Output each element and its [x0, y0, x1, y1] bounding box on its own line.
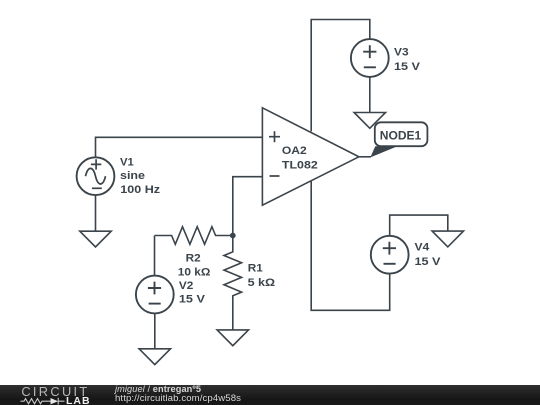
svg-text:LAB: LAB — [66, 395, 91, 405]
svg-text:V1: V1 — [120, 157, 134, 169]
resistor R2 — [155, 227, 233, 245]
svg-text:R1: R1 — [248, 263, 263, 275]
node NODE1 flag — [370, 122, 427, 157]
label V1 value — [120, 157, 161, 196]
wire V2 bottom to ground — [154, 313, 156, 348]
ground below V3 — [354, 113, 385, 129]
voltage source V2 — [136, 276, 174, 314]
wire V3 bottom to ground — [369, 77, 371, 113]
CircuitLab logo — [0, 385, 110, 405]
label R1 value — [248, 263, 276, 290]
wire op-amp V+ supply pin — [311, 20, 370, 132]
junction dot — [230, 233, 236, 239]
svg-text:sine: sine — [120, 170, 145, 182]
svg-text:15 V: 15 V — [415, 256, 442, 268]
ground below V1 — [80, 231, 111, 247]
svg-text:V4: V4 — [415, 242, 431, 254]
op-amp OA2 — [262, 108, 359, 205]
svg-text:R2: R2 — [186, 252, 201, 264]
wire inverting input from junction — [233, 177, 263, 236]
svg-text:15 V: 15 V — [394, 61, 421, 73]
voltage source V4 — [371, 236, 409, 274]
svg-text:V2: V2 — [179, 280, 193, 292]
label V4 value — [415, 242, 442, 268]
wire op-amp V- supply pin to V4 — [311, 181, 390, 310]
label OA2 name — [282, 145, 318, 171]
label R2 value — [178, 252, 211, 278]
ground below V2 — [139, 349, 170, 365]
svg-text:100 Hz: 100 Hz — [120, 184, 160, 196]
label V2 value — [179, 280, 206, 306]
voltage source V1 — [77, 157, 115, 195]
svg-text:V3: V3 — [394, 47, 409, 59]
resistor R1 — [224, 236, 242, 330]
svg-text:10 kΩ: 10 kΩ — [178, 266, 211, 278]
wire R2 left to V2 — [154, 236, 156, 276]
wire V1 bottom to ground — [95, 195, 97, 231]
svg-text:15 V: 15 V — [179, 294, 206, 306]
wire V1 top to op-amp non-inverting input — [96, 137, 263, 157]
voltage source V3 — [351, 39, 389, 77]
ground below R1 — [217, 330, 248, 346]
svg-text:OA2: OA2 — [282, 145, 307, 157]
label V3 value — [394, 47, 421, 73]
svg-text:5 kΩ: 5 kΩ — [248, 277, 276, 289]
svg-text:TL082: TL082 — [282, 160, 318, 172]
wire op-amp output to node — [359, 156, 371, 158]
svg-text:NODE1: NODE1 — [380, 130, 422, 142]
CircuitLab footer bar — [0, 385, 540, 405]
attribution text — [115, 385, 241, 405]
wire V4 plus to ground — [390, 215, 448, 236]
ground right of V4 — [432, 231, 463, 247]
